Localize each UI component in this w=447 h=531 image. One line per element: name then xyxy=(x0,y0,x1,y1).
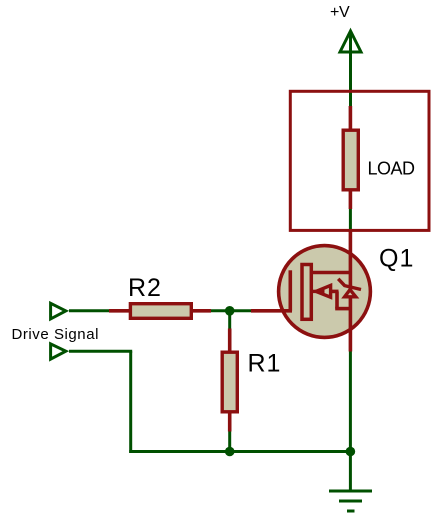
terminal input 2 xyxy=(51,344,66,359)
wire rail to ground xyxy=(349,452,352,492)
resistor R2 pin right xyxy=(192,309,212,313)
svg-text:LOAD: LOAD xyxy=(368,159,416,179)
resistor R1 body xyxy=(222,352,237,412)
transistor Q1 step vertical xyxy=(335,291,339,308)
svg-text:R1: R1 xyxy=(248,350,282,378)
wire bottom rail xyxy=(129,450,350,453)
transistor Q1 drain pin xyxy=(349,229,353,290)
wire terminal2 right xyxy=(69,350,132,353)
transistor Q1 gate pin xyxy=(251,309,292,313)
resistor R2 pin left xyxy=(109,309,130,313)
wire terminal1 to R2 xyxy=(69,309,110,312)
transistor Q1 gate bar xyxy=(288,270,292,311)
transistor Q1 source arrow xyxy=(316,285,331,297)
wire R2 to gate xyxy=(211,309,251,312)
transistor Q1 source bar xyxy=(335,307,350,311)
resistor R1 pin bottom xyxy=(228,412,232,432)
terminal input 1 xyxy=(51,303,66,319)
wire R1 to bottom rail xyxy=(228,432,231,452)
transistor Q1 drain bar xyxy=(311,271,350,275)
svg-text:R2: R2 xyxy=(128,274,162,302)
transistor Q1 source pin xyxy=(349,297,353,352)
transistor Q1 body-diode triangle xyxy=(345,290,356,297)
transistor Q1 body circle xyxy=(279,246,371,338)
LOAD box outline xyxy=(290,91,429,230)
wire junction to R1 xyxy=(228,311,231,329)
transistor Q1 arrow-to-step stub xyxy=(331,290,339,294)
node junction gate xyxy=(225,306,235,316)
resistor LOAD body xyxy=(343,130,358,190)
resistor LOAD pin top xyxy=(349,106,353,130)
svg-text:+V: +V xyxy=(330,4,350,21)
transistor Q1 body-diode cathode xyxy=(338,279,361,290)
power symbol +V xyxy=(340,31,361,108)
resistor LOAD pin bottom xyxy=(349,190,353,209)
wire source to rail xyxy=(349,352,352,452)
wire load-bottom to drain xyxy=(349,209,352,230)
resistor R2 body xyxy=(130,304,191,319)
ground xyxy=(329,491,372,511)
resistor R1 pin top xyxy=(228,329,232,353)
svg-text:Q1: Q1 xyxy=(379,245,414,273)
transistor Q1 channel plate xyxy=(302,265,311,320)
node junction R1 bottom xyxy=(225,447,235,457)
wire terminal2 down xyxy=(129,351,132,453)
transistor Q1 source arrow stub xyxy=(312,290,325,293)
node junction source bottom xyxy=(346,447,356,457)
svg-text:Drive Signal: Drive Signal xyxy=(12,326,99,343)
